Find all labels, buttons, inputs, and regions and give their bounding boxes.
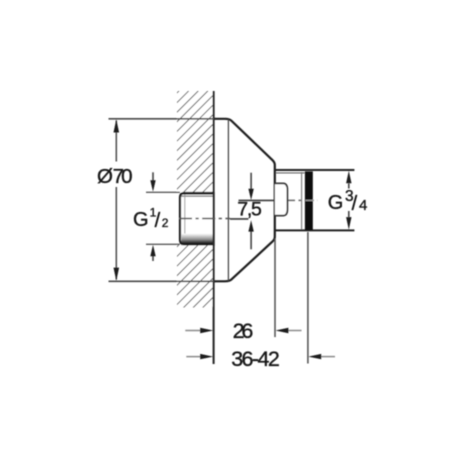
cone flange inner edge bbox=[227, 120, 229, 281]
svg-text:4: 4 bbox=[359, 197, 367, 214]
G3/4 dimension lower arrow bbox=[348, 211, 350, 217]
G3/4 black seal band bbox=[305, 171, 313, 230]
G1/2 lower arrow bbox=[152, 255, 154, 261]
svg-text:Ø 70: Ø 70 bbox=[97, 165, 133, 188]
7,5 lower reference line bbox=[230, 218, 248, 220]
G1/2 bottom extension line bbox=[146, 243, 180, 245]
svg-text:2: 2 bbox=[162, 216, 169, 230]
26 dimension left arrow bbox=[185, 330, 203, 332]
G1/2 nipple chamfer line bbox=[184, 195, 186, 243]
dia70 top extension line bbox=[109, 118, 215, 120]
G3/4 connector top edge + extension bbox=[275, 169, 355, 171]
G3/4 dimension upper arrow bbox=[348, 184, 350, 189]
dia70 bottom extension line bbox=[109, 280, 215, 282]
main centerline solid segment / 7,5 upper reference line bbox=[239, 199, 284, 201]
svg-text:36-42: 36-42 bbox=[231, 347, 280, 371]
G1/2 nipple bottom edge bbox=[181, 243, 214, 245]
G1/2 nipple bottom thread shading bbox=[182, 234, 214, 244]
main centerline dash-dot bbox=[286, 199, 318, 201]
wall face line over nipple bbox=[213, 192, 215, 246]
dia70 top arrowhead bbox=[114, 119, 120, 132]
36-42 dimension right arrow bbox=[320, 356, 335, 358]
G3/4 groove line bbox=[301, 172, 303, 230]
wall hatched section upper bbox=[177, 91, 214, 192]
G1/2 top extension line bbox=[146, 191, 180, 193]
G3/4 top inner thread line bbox=[276, 172, 305, 174]
svg-text:G: G bbox=[328, 192, 344, 214]
G1/2 nipple body bbox=[180, 193, 214, 244]
centerline dash over band bbox=[306, 199, 314, 201]
dia70 dimension line lower segment bbox=[115, 187, 117, 280]
wall face line bbox=[213, 91, 215, 364]
dia70 dimension line upper segment bbox=[115, 121, 117, 162]
26 dimension right arrow bbox=[287, 330, 302, 332]
escutcheon cone outline bbox=[214, 119, 275, 281]
G1/2 upper arrow bbox=[152, 172, 154, 182]
svg-text:/: / bbox=[155, 210, 161, 232]
G1/2 centerline (dash-dot) bbox=[179, 218, 230, 220]
26 dimension right extension line bbox=[274, 239, 276, 338]
G1/2 nipple inner top thread line bbox=[181, 195, 214, 197]
dia70 bottom arrowhead bbox=[114, 268, 120, 281]
7,5 upper arrow bbox=[250, 173, 252, 190]
inner cone seat (olive) bbox=[275, 183, 287, 215]
svg-text:/: / bbox=[352, 193, 358, 215]
G3/4 connector bottom edge + extension bbox=[275, 229, 355, 231]
7,5 lower arrow bbox=[250, 230, 252, 249]
36-42 dimension left arrow bbox=[186, 356, 203, 358]
36-42 right extension line bbox=[307, 232, 309, 364]
svg-text:7,5: 7,5 bbox=[237, 199, 262, 221]
svg-text:26: 26 bbox=[233, 319, 254, 343]
wall hatched section lower bbox=[177, 245, 214, 308]
svg-text:G: G bbox=[133, 209, 149, 231]
